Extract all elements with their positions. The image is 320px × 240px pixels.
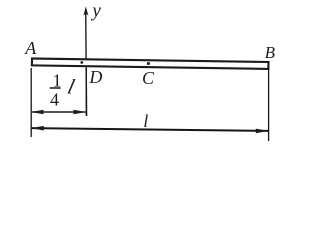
- svg-text:C: C: [142, 68, 155, 88]
- point D dot: [80, 61, 83, 64]
- dimension line 2 (full span l): [31, 128, 268, 131]
- fraction bar: [50, 87, 61, 89]
- svg-text:D: D: [88, 67, 102, 87]
- y-axis arrowhead: [84, 7, 89, 16]
- svg-text:B: B: [265, 43, 276, 62]
- dim1 left arrow: [31, 110, 43, 115]
- dim2 left arrow: [31, 126, 44, 131]
- svg-text:4: 4: [50, 90, 59, 110]
- point C dot: [147, 62, 150, 65]
- left extension line: [30, 68, 32, 137]
- dim1 right arrow: [74, 110, 86, 115]
- middle extension line (below D): [85, 68, 87, 116]
- dim2 right arrow: [256, 129, 268, 134]
- right extension line: [268, 69, 270, 142]
- dimension line 1 (quarter span): [31, 111, 86, 113]
- svg-text:A: A: [24, 38, 37, 58]
- y-axis line: [85, 9, 88, 116]
- fraction l (small): [65, 75, 77, 99]
- bar AB (beam): [32, 59, 269, 69]
- svg-text:y: y: [90, 1, 101, 22]
- svg-text:l: l: [143, 111, 148, 131]
